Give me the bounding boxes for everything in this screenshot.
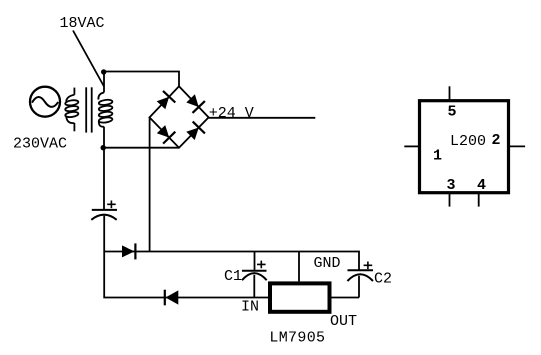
- svg-text:5: 5: [448, 103, 457, 120]
- svg-text:C1: C1: [224, 268, 242, 285]
- svg-text:4: 4: [477, 177, 486, 194]
- svg-text:GND: GND: [314, 255, 341, 272]
- svg-text:C2: C2: [374, 271, 392, 288]
- svg-text:2: 2: [492, 132, 501, 149]
- svg-text:1: 1: [433, 147, 442, 164]
- svg-text:LM7905: LM7905: [269, 330, 325, 347]
- svg-text:+24 V: +24 V: [209, 105, 254, 122]
- svg-text:IN: IN: [241, 298, 259, 315]
- svg-text:L200: L200: [450, 133, 486, 150]
- svg-text:230VAC: 230VAC: [13, 135, 67, 152]
- svg-text:18VAC: 18VAC: [60, 15, 105, 32]
- svg-text:OUT: OUT: [330, 313, 357, 330]
- svg-text:3: 3: [447, 177, 456, 194]
